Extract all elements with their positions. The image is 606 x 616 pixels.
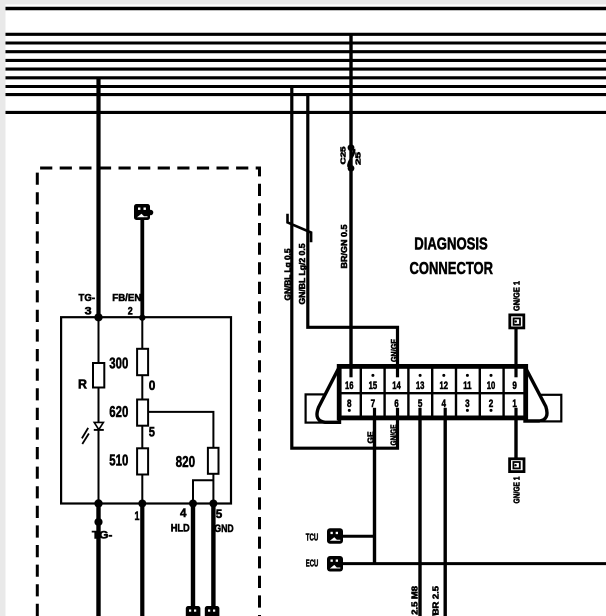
bus wire 3 [6, 41, 606, 44]
svg-text:4: 4 [180, 506, 187, 520]
splice dot on TG- wire [94, 518, 102, 526]
svg-text:GE: GE [367, 431, 376, 444]
wire K-line drop from bus 8 to pin 6 [292, 87, 398, 449]
wire step to pin 4 [193, 480, 213, 503]
svg-text:25: 25 [356, 152, 363, 165]
contact dots top row [373, 374, 491, 377]
svg-text:4: 4 [442, 398, 447, 410]
svg-text:C25: C25 [341, 146, 348, 164]
svg-text:620: 620 [109, 404, 128, 421]
svg-text:GN/GE 1: GN/GE 1 [513, 476, 522, 503]
connector strap symbol across K-line wires [288, 214, 312, 243]
junction bottom 1 [138, 500, 146, 508]
page margin top [0, 0, 606, 4]
connector cell separators [361, 366, 504, 418]
svg-text:3: 3 [465, 398, 470, 410]
svg-text:7: 7 [371, 398, 376, 410]
pin 4 stub [444, 408, 447, 420]
bus wire 1 [6, 7, 606, 10]
connector mid separator [337, 392, 526, 394]
inline connector C25 on pin16 wire [341, 144, 363, 171]
wire pin 5 down [418, 408, 421, 616]
TCU connector symbol [327, 528, 343, 544]
svg-text:GN/BL Lg/2 0.5: GN/BL Lg/2 0.5 [298, 243, 307, 305]
wire pin1 below box [140, 504, 144, 616]
svg-text:FB/EN: FB/EN [112, 293, 141, 304]
wire pin4 below box [191, 504, 195, 609]
bottom connector symbol pin5 [205, 606, 220, 616]
pin 1 stub [514, 408, 517, 420]
connector left ear [306, 394, 339, 422]
wire TG- drop from bus 7 [96, 78, 100, 317]
junction pin 3 [94, 313, 102, 321]
resistor 620 [137, 400, 148, 426]
svg-text:13: 13 [416, 380, 425, 392]
resistor 820 [208, 448, 219, 474]
bus wire 6 [6, 68, 606, 71]
svg-text:10: 10 [487, 380, 496, 392]
bus wire 8 [6, 85, 606, 88]
bus wire 2 [6, 33, 606, 36]
pin numbers bottom row [347, 398, 517, 410]
svg-text:300: 300 [109, 355, 128, 372]
svg-text:DIAGNOSIS: DIAGNOSIS [414, 233, 488, 253]
svg-text:5: 5 [216, 507, 223, 521]
svg-text:GND: GND [214, 523, 233, 535]
wire below 820 to pin 5 [212, 474, 214, 504]
connector body [339, 366, 526, 418]
svg-text:1: 1 [135, 509, 140, 523]
svg-text:12: 12 [440, 380, 449, 392]
pin 7 stub [373, 408, 376, 420]
wire drop from bus 2 to pin 16 [349, 34, 352, 377]
ECU connector symbol [327, 556, 343, 572]
svg-text:2: 2 [489, 398, 494, 410]
pin 9 stub [514, 365, 517, 377]
svg-text:TCU: TCU [306, 533, 319, 544]
svg-text:HLD: HLD [171, 522, 190, 534]
connector right shell [525, 367, 547, 421]
svg-text:14: 14 [392, 380, 401, 392]
svg-text:820: 820 [176, 454, 196, 471]
terminal symbol pin 9 [510, 315, 524, 328]
junction bottom 4 [189, 500, 197, 508]
wire pin5 below box [211, 504, 215, 609]
wire pin 4 down [444, 408, 447, 616]
svg-text:TG-: TG- [79, 293, 96, 304]
svg-text:6: 6 [394, 398, 399, 410]
bus wire 10 [6, 111, 606, 114]
svg-text:BR/GN 0.5: BR/GN 0.5 [340, 224, 349, 269]
wire FB/EN vertical [140, 220, 144, 318]
wire inside box left branch [98, 317, 100, 503]
pin 14 stub [396, 365, 399, 377]
connector right ear [525, 395, 561, 422]
svg-text:0: 0 [149, 378, 156, 393]
resistor R [93, 363, 104, 388]
wire TG- below box [96, 504, 100, 616]
connector symbol on FB/EN wire [134, 204, 153, 220]
svg-text:8: 8 [347, 398, 352, 410]
bus wire 5 [6, 59, 606, 62]
pin 6 stub [396, 408, 399, 420]
wire ECU K-line to edge [343, 562, 606, 565]
bus wire 7 [6, 76, 606, 79]
svg-text:5: 5 [149, 425, 156, 440]
tester inner box [61, 317, 231, 503]
wire inside box middle branch [141, 318, 143, 504]
terminal symbol pin 1 [510, 459, 524, 472]
junction bottom TG- [94, 499, 102, 507]
svg-text:CONNECTOR: CONNECTOR [410, 258, 494, 278]
svg-text:2: 2 [128, 306, 133, 318]
svg-text:SW/BR 2.5: SW/BR 2.5 [432, 585, 441, 616]
svg-text:16: 16 [345, 380, 354, 392]
svg-text:15: 15 [369, 380, 378, 392]
svg-text:11: 11 [463, 380, 472, 392]
svg-text:R: R [78, 377, 88, 392]
svg-text:GN/GE: GN/GE [390, 338, 399, 362]
wire pin 1 down [514, 408, 517, 458]
wire TCU to pin7 [343, 535, 375, 538]
resistor 510 [137, 448, 148, 474]
svg-text:TG-: TG- [92, 530, 113, 542]
wire drop from bus 9 to pin 14 [308, 95, 398, 378]
svg-text:GN/GE: GN/GE [390, 424, 399, 446]
wire pin 7 to ECU line [373, 408, 376, 564]
wire pin 9 [514, 329, 517, 377]
junction bottom 5 [209, 500, 217, 508]
wire from 620 to 820 [148, 412, 213, 448]
pin 16 stub [349, 365, 352, 377]
bottom connector symbol pin4 [186, 606, 201, 616]
page margin left [0, 0, 6, 616]
bus wire 9 [6, 93, 606, 96]
junction pin 2 [139, 314, 145, 320]
svg-text:1: 1 [512, 398, 517, 410]
svg-text:BR 2.5 M8: BR 2.5 M8 [411, 585, 420, 616]
svg-text:3: 3 [85, 306, 92, 318]
svg-text:GN/BL Lg 0.5: GN/BL Lg 0.5 [284, 248, 293, 301]
pin numbers top row [345, 380, 517, 392]
svg-text:5: 5 [418, 398, 423, 410]
pin 5 stub [418, 408, 421, 420]
connector left shell [317, 367, 340, 423]
svg-text:9: 9 [512, 380, 517, 392]
svg-text:GN/GE 1: GN/GE 1 [513, 280, 522, 311]
LED diode [82, 422, 104, 444]
resistor 300 [137, 349, 148, 375]
bus wire 4 [6, 50, 606, 53]
contact dots bottom row [349, 409, 491, 412]
tester dashed box [37, 168, 259, 616]
svg-text:ECU: ECU [306, 559, 319, 570]
svg-text:510: 510 [109, 452, 128, 469]
